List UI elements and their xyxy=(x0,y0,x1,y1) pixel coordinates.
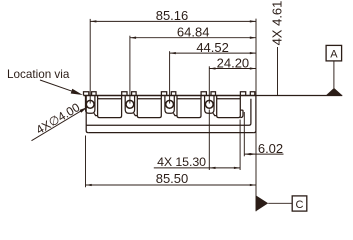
tab pair 2 xyxy=(122,92,136,96)
arrow 64.84 right xyxy=(250,37,256,39)
svg-text:A: A xyxy=(330,49,338,61)
part body left edge xyxy=(86,96,88,133)
arrow leader Location via xyxy=(71,89,83,95)
arrow 6.02 left xyxy=(244,153,250,155)
svg-text:4X∅4.00: 4X∅4.00 xyxy=(34,100,83,137)
arrow 6.02 right xyxy=(250,153,256,155)
datum C triangle xyxy=(256,195,268,211)
arrowheads xyxy=(71,20,342,211)
arrow 15.30 right xyxy=(234,167,240,169)
svg-text:85.16: 85.16 xyxy=(156,8,189,23)
extension line hole 4 center xyxy=(208,66,210,103)
dimension line 24.20 xyxy=(209,68,256,70)
arrow 64.84 left xyxy=(130,37,136,39)
svg-text:4X 15.30: 4X 15.30 xyxy=(157,155,206,169)
datum A leader xyxy=(333,61,335,88)
extension line hole 3 center xyxy=(169,51,171,103)
dimension line 85.16 xyxy=(90,20,256,22)
svg-text:44.52: 44.52 xyxy=(196,40,229,55)
boss around hole 2 xyxy=(125,96,137,116)
extension line hole 1 center xyxy=(89,19,91,104)
arrow 24.20 left xyxy=(209,67,215,69)
arrow 24.20 right xyxy=(250,67,256,69)
arrow 44.52 right xyxy=(250,52,256,54)
part body right edge xyxy=(254,96,256,133)
tab pair 1 xyxy=(84,92,97,96)
arrow leader 4X dia 4.00 xyxy=(80,107,88,113)
extension line 4X 4.61 xyxy=(277,47,279,96)
extension line hole 2 center xyxy=(129,36,131,104)
arrow 85.16 left xyxy=(90,20,96,22)
hole 4 xyxy=(205,100,213,108)
tab pair 3 xyxy=(161,92,175,96)
arrow 85.16 right xyxy=(250,20,256,22)
svg-text:64.84: 64.84 xyxy=(177,25,210,40)
arrow 85.50 left xyxy=(86,184,92,186)
svg-text:6.02: 6.02 xyxy=(258,141,283,156)
svg-text:24.20: 24.20 xyxy=(217,55,250,70)
tab pair 4 xyxy=(201,92,215,96)
arrow 44.52 left xyxy=(170,52,176,54)
datum C box xyxy=(292,196,307,211)
dimension line 44.52 xyxy=(170,52,256,54)
svg-text:85.50: 85.50 xyxy=(156,171,189,186)
extension line hole4 center bottom xyxy=(208,110,210,171)
svg-text:C: C xyxy=(296,199,304,211)
extension line pocket4 right bottom xyxy=(239,120,241,171)
svg-text:Location via: Location via xyxy=(7,68,70,81)
part mid shelf line xyxy=(86,99,251,126)
pocket 3 xyxy=(177,96,201,118)
right reference extension line xyxy=(255,19,257,212)
svg-text:4X 4.61: 4X 4.61 xyxy=(270,1,285,46)
dimension line 64.84 xyxy=(130,37,256,39)
part body bottom edge xyxy=(88,132,254,134)
extension line 6.02 left xyxy=(243,112,245,156)
leader line Location via xyxy=(40,80,80,94)
datum A triangle xyxy=(326,88,342,95)
leader line 4X dia 4.00 xyxy=(32,107,88,141)
hole 1 xyxy=(86,100,94,108)
arrow 15.30 left xyxy=(209,167,215,169)
hole 2 xyxy=(126,100,134,108)
arrow 85.50 right xyxy=(250,184,256,186)
pocket 4 right step xyxy=(240,110,243,118)
datum A box xyxy=(326,45,342,61)
part top edge xyxy=(84,95,256,97)
extension line 85.50 left xyxy=(85,136,87,188)
boss around hole 4 xyxy=(205,96,217,116)
tab pair 5 xyxy=(240,92,254,96)
boss around hole 1 xyxy=(86,96,98,116)
dimension line 85.50 xyxy=(86,184,257,186)
datum C leader xyxy=(268,202,292,204)
boss around hole 3 xyxy=(165,96,177,116)
dimension line 4X 15.30 xyxy=(154,167,240,169)
pocket 2 xyxy=(137,96,161,118)
top edge extension to datum A xyxy=(256,95,342,97)
hole 3 xyxy=(166,100,174,108)
dimension line 6.02 xyxy=(244,153,283,155)
pocket 1 xyxy=(98,96,122,118)
pocket 4 xyxy=(217,96,241,118)
